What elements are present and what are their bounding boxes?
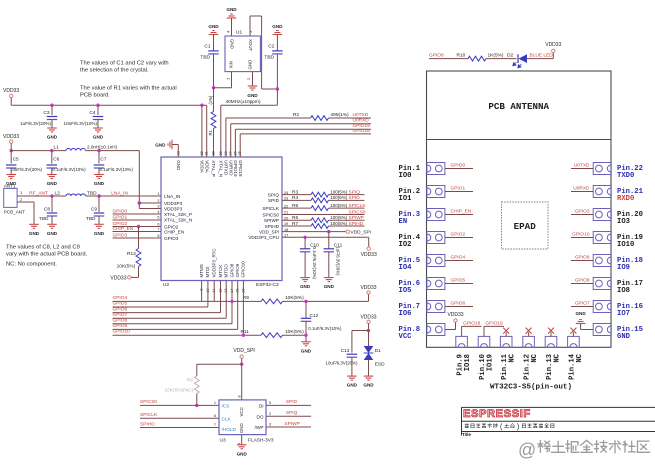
antenna zone divider (427, 139, 612, 141)
wire GPIO9 row (113, 328, 238, 330)
svg-text:IO7: IO7 (617, 310, 630, 318)
wire SPIHD to flash (140, 427, 219, 429)
svg-text:IO8: IO8 (617, 287, 630, 295)
svg-text:R11: R11 (240, 329, 249, 335)
svg-text:XTAL_32K_N: XTAL_32K_N (164, 217, 192, 222)
junction D1 node (367, 329, 370, 332)
svg-text:PCB board.: PCB board. (80, 93, 110, 99)
capacitor C10 (304, 237, 306, 249)
wire U1 pin3 XOUT routing (249, 16, 251, 36)
svg-text:XOUT: XOUT (248, 39, 253, 52)
company name Chinese (465, 424, 469, 428)
svg-text:PCB ANTENNA: PCB ANTENNA (488, 101, 549, 112)
svg-text:R13: R13 (127, 251, 136, 257)
svg-text:100(5%): 100(5%) (330, 221, 348, 226)
svg-text:TBD: TBD (86, 216, 96, 222)
svg-text:GPIO2: GPIO2 (451, 231, 466, 237)
power port VDD33 module VCC (445, 329, 456, 331)
svg-text:GND: GND (247, 93, 258, 98)
svg-text:U0RXD: U0RXD (353, 118, 370, 124)
svg-text:GPIO9: GPIO9 (113, 323, 128, 329)
svg-text:GPIO4: GPIO4 (113, 295, 128, 301)
svg-text:C6: C6 (53, 157, 59, 163)
wire GPIO4 row joining R9 line (113, 300, 262, 302)
svg-text:VDD33: VDD33 (3, 88, 19, 94)
svg-text:C4: C4 (89, 110, 95, 116)
svg-text:2.0nH(±0.1nH): 2.0nH(±0.1nH) (87, 144, 118, 149)
svg-text:GPIO1: GPIO1 (451, 185, 466, 191)
svg-text:GND: GND (176, 160, 181, 171)
svg-text:Title: Title (462, 432, 472, 437)
svg-text:GPIO0: GPIO0 (113, 208, 128, 214)
svg-text:GND: GND (226, 7, 237, 12)
NC mark (550, 332, 552, 336)
svg-text:VDD_SPI: VDD_SPI (259, 229, 279, 234)
wire XIN node to U1 pin1 (214, 87, 232, 89)
module pad Pin.3 EN (427, 209, 445, 221)
wire DO (266, 415, 311, 417)
svg-text:GND: GND (93, 135, 104, 140)
svg-text:C13: C13 (341, 348, 350, 354)
junction R13 on GPIO2 (137, 225, 140, 228)
junction C11 (327, 230, 330, 233)
svg-text:VDDA: VDDA (204, 160, 209, 173)
svg-text:10nF/6.3V(10%): 10nF/6.3V(10%) (64, 121, 98, 126)
svg-text:D1: D1 (375, 348, 381, 354)
svg-text:R3: R3 (292, 189, 298, 195)
svg-text:3: 3 (269, 423, 271, 427)
wire to U2 pin3 (138, 203, 140, 209)
svg-text:C7: C7 (100, 157, 106, 163)
wire VDD33 down to D1 node (368, 324, 370, 331)
svg-text:100(5%): 100(5%) (330, 195, 348, 200)
svg-text:1: 1 (20, 190, 23, 195)
svg-text:1: 1 (226, 77, 231, 80)
svg-text:SPIWP: SPIWP (349, 215, 364, 221)
svg-text:GND: GND (363, 383, 374, 388)
svg-text:31: 31 (205, 151, 209, 155)
svg-text:LNA_IN: LNA_IN (164, 194, 180, 199)
module pad Pin.8 VCC (427, 324, 445, 336)
wire GPIO8 to R10 (429, 58, 468, 60)
wire to pullup R8 (197, 363, 242, 365)
svg-text:VDD3P3: VDD3P3 (164, 206, 183, 211)
junction C12 (304, 300, 307, 303)
svg-text:IO10: IO10 (617, 241, 634, 249)
module pad Pin.19 IO10 (593, 232, 611, 244)
IC U2 ESP32-C3 (161, 157, 282, 281)
svg-text:TBD: TBD (39, 216, 49, 222)
wire SPICLK row (282, 207, 311, 209)
svg-text:GND: GND (272, 24, 283, 29)
svg-text:VDD3P3: VDD3P3 (164, 201, 183, 206)
svg-text:5: 5 (157, 216, 159, 220)
svg-text:vary with the actual PCB board: vary with the actual PCB board. (6, 252, 88, 258)
IC U3 FLASH-3V3 (219, 400, 266, 435)
ground module pin15 (581, 329, 594, 331)
wire VDD33 rail1 (10, 98, 12, 106)
svg-text:ANT1: ANT1 (4, 183, 16, 188)
svg-text:0.1uF/6.3V(10%): 0.1uF/6.3V(10%) (312, 247, 317, 280)
svg-text:SPICLK: SPICLK (349, 203, 367, 209)
junction C3 (50, 104, 53, 107)
svg-text:IO18: IO18 (464, 354, 472, 371)
svg-text:SPIQ: SPIQ (268, 192, 280, 197)
svg-text:30: 30 (212, 151, 216, 155)
svg-text:SPIWP: SPIWP (264, 218, 279, 223)
svg-text:0.1uF/6.3V(10%): 0.1uF/6.3V(10%) (308, 326, 342, 331)
svg-text:U0RXD: U0RXD (573, 185, 590, 191)
svg-text:GPIO9: GPIO9 (235, 263, 240, 277)
ground C12 (301, 341, 311, 343)
junction R8 on SPICS0 (195, 404, 198, 407)
wire ANT1 pin2 to ground (17, 201, 34, 203)
node XIN junction (212, 86, 215, 89)
ground C7 (94, 174, 104, 176)
module pad Pin.5 IO4 (427, 255, 445, 267)
svg-text:GPIO4: GPIO4 (451, 254, 466, 260)
svg-text:MTDI: MTDI (205, 267, 210, 278)
svg-text:GPIO6: GPIO6 (451, 300, 466, 306)
wire SPID row (282, 199, 311, 201)
svg-text:GND: GND (47, 135, 58, 140)
svg-text:CHIP_EN: CHIP_EN (113, 226, 134, 232)
svg-text:U3: U3 (220, 438, 226, 444)
svg-text:ESPRESSIF: ESPRESSIF (463, 408, 531, 420)
svg-text:IO19: IO19 (486, 354, 494, 371)
svg-text:GND: GND (94, 231, 105, 236)
wire VDD3P3 feed down (138, 151, 140, 203)
svg-text:MTMS: MTMS (199, 264, 204, 277)
wire SPIQ row (282, 194, 311, 196)
svg-text:GPIO5: GPIO5 (113, 301, 128, 307)
svg-text:GPIO10: GPIO10 (572, 231, 590, 237)
wire GPIO18 to pad (461, 326, 463, 336)
svg-text:2: 2 (157, 199, 159, 203)
junction GPIO10 stub (242, 334, 245, 337)
wire SPICS0 to flash (140, 404, 219, 406)
svg-text:C3: C3 (43, 110, 49, 116)
ground C6 (47, 174, 57, 176)
svg-text:6: 6 (157, 223, 159, 227)
svg-text:DO: DO (256, 414, 263, 419)
svg-text:R6: R6 (292, 215, 298, 221)
svg-text:VDD33: VDD33 (361, 252, 377, 258)
wire GPIO19 to pad (483, 326, 485, 336)
svg-text:GPIO6: GPIO6 (113, 306, 128, 312)
wire VDD3P3_CPU row pin17 (282, 236, 369, 238)
svg-text:GND: GND (247, 60, 252, 70)
node XOUT junction (276, 87, 279, 90)
svg-text:MTDO: MTDO (224, 264, 229, 278)
svg-text:GPIO3: GPIO3 (113, 232, 128, 238)
svg-text:29: 29 (219, 151, 223, 155)
capacitor C7 (98, 151, 100, 164)
svg-text:GND: GND (155, 143, 166, 148)
module pad Pin.22 TXD0 (593, 163, 611, 175)
svg-text:GND: GND (47, 181, 58, 186)
svg-text:GPIO8: GPIO8 (575, 277, 590, 283)
svg-text:10K(5%): 10K(5%) (285, 329, 304, 335)
wire L2 to LNA_IN (86, 195, 161, 197)
svg-text:10K(5%): 10K(5%) (117, 264, 136, 270)
svg-text:GND: GND (347, 383, 358, 388)
svg-text:GPIO10: GPIO10 (241, 261, 246, 278)
svg-text:EN: EN (399, 218, 408, 226)
svg-text:IO6: IO6 (399, 310, 412, 318)
svg-text:IO9: IO9 (617, 264, 630, 272)
NC mark (572, 332, 574, 336)
svg-text:U0TXD: U0TXD (574, 162, 590, 168)
svg-text:VDD3P3_CPU: VDD3P3_CPU (248, 235, 279, 240)
NC mark (505, 332, 507, 336)
svg-text:GND: GND (208, 24, 219, 29)
junction C9 (97, 194, 100, 197)
svg-text:8: 8 (157, 234, 159, 238)
svg-text:IO4: IO4 (399, 264, 413, 272)
svg-text:the selection of the crystal.: the selection of the crystal. (80, 68, 149, 74)
wire GPIO2 to U2 (113, 226, 162, 228)
svg-text:10K(5%): 10K(5%) (285, 295, 304, 301)
svg-text:TBD: TBD (87, 190, 97, 196)
svg-text:VDD_SPI: VDD_SPI (351, 230, 372, 236)
svg-text:1uF/6.3V(20%): 1uF/6.3V(20%) (20, 121, 51, 126)
ground C8 (47, 223, 57, 225)
svg-text:(1%): (1%) (208, 95, 213, 104)
svg-text:GND: GND (617, 333, 631, 341)
svg-text:R4: R4 (292, 195, 298, 201)
svg-text:IO1: IO1 (399, 195, 413, 203)
svg-text:GPIO18: GPIO18 (353, 128, 371, 134)
svg-text:VDD_SPI: VDD_SPI (233, 348, 254, 354)
ground C4 (93, 127, 103, 129)
module pad Pin.21 RXD0 (593, 186, 611, 198)
svg-text:C9: C9 (91, 207, 97, 213)
svg-text:100(5%): 100(5%) (330, 203, 348, 208)
svg-text:IO5: IO5 (399, 287, 412, 295)
wire C1 to XIN node (213, 54, 215, 88)
svg-text:VDD33: VDD33 (545, 42, 561, 48)
wire D2 to VDD33 (527, 58, 553, 60)
ground C10 (300, 277, 310, 279)
svg-text:U2: U2 (163, 282, 169, 288)
wire WP (266, 426, 311, 428)
svg-text:GND: GND (237, 451, 248, 456)
capacitor C4 (97, 105, 99, 115)
ground for U1 pin2 (252, 72, 254, 86)
svg-text:GND: GND (29, 231, 40, 236)
svg-text:GPIO0: GPIO0 (451, 162, 466, 168)
wire GPIO5 row (113, 306, 208, 308)
module pad Pin.10 IO19 (478, 336, 490, 347)
wire SPICS0 row (282, 214, 365, 216)
wire U2 pin33 GND (177, 145, 179, 158)
title block frame (462, 406, 655, 408)
svg-text:D2: D2 (507, 52, 513, 58)
wire rail2 left segment (11, 150, 66, 152)
module pad Pin.12 NC (523, 336, 535, 347)
wire C2 to XOUT node (276, 54, 278, 89)
svg-text:SPICS0: SPICS0 (140, 399, 157, 405)
svg-text:5: 5 (269, 401, 271, 405)
svg-text:RF_ANT: RF_ANT (29, 190, 48, 196)
module pad Pin.4 IO2 (427, 232, 445, 244)
junction C8 (50, 194, 53, 197)
module pad Pin.7 IO6 (427, 301, 445, 313)
wire LNA_IN row into pin1 (99, 195, 161, 197)
ground C13 (347, 375, 357, 377)
module pad Pin.16 IO7 (593, 301, 611, 313)
svg-text:4: 4 (226, 30, 231, 33)
svg-text:R10: R10 (457, 52, 466, 58)
svg-text:4: 4 (157, 210, 159, 214)
svg-text:GPIO10: GPIO10 (113, 329, 131, 335)
svg-text:10uF/6.3V(20%): 10uF/6.3V(20%) (326, 360, 359, 365)
svg-text:PCB_ANT: PCB_ANT (4, 209, 25, 214)
svg-text:GPIO8: GPIO8 (229, 263, 234, 277)
power port VDD_SPI (346, 230, 349, 233)
junction R9 tap on GPIO8 stub (230, 300, 233, 303)
svg-text:U0TXD: U0TXD (353, 112, 369, 118)
svg-text:6: 6 (214, 414, 216, 418)
capacitor C6 (51, 151, 53, 164)
capacitor C3 (51, 105, 53, 115)
wire GPIO18 row (239, 134, 241, 157)
module pad Pin.17 IO8 (593, 278, 611, 290)
module pad Pin.15 GND (593, 324, 611, 336)
module outline WT32C3-S5 (427, 71, 612, 347)
wire U0TXD row with R2 (225, 118, 227, 157)
svg-text:GPIO18: GPIO18 (463, 321, 481, 327)
power port VDD33 right of U2 (367, 247, 370, 250)
svg-text:NC: NC (576, 353, 584, 362)
svg-text:2: 2 (20, 197, 23, 202)
svg-text:/WP: /WP (255, 425, 264, 430)
svg-text:SPID: SPID (286, 399, 298, 405)
svg-text:EPAD: EPAD (514, 221, 537, 232)
wire U1 pin4 to GND (231, 18, 233, 36)
svg-text:7: 7 (214, 423, 216, 427)
svg-text:C1: C1 (204, 44, 210, 50)
svg-text:CHIP_EN: CHIP_EN (451, 208, 472, 214)
svg-text:VDD3P3_RTC: VDD3P3_RTC (212, 248, 217, 278)
wire VDDA pins from rail (200, 104, 203, 107)
svg-text:C5: C5 (13, 157, 19, 163)
svg-text:R7: R7 (292, 221, 298, 227)
svg-text:R1: R1 (208, 129, 213, 135)
wire VDD_SPI row pin18 (282, 231, 346, 233)
svg-text:VDD33: VDD33 (110, 275, 126, 281)
junction VDD3P3 (138, 201, 141, 204)
svg-text:VDD33: VDD33 (447, 312, 463, 318)
svg-text:TXD0: TXD0 (617, 172, 634, 180)
TVS diode D1 (368, 331, 370, 347)
ground C9 (94, 223, 104, 225)
svg-text:SPID: SPID (268, 198, 280, 203)
svg-text:GPIO7: GPIO7 (575, 300, 590, 306)
svg-text:VDD33: VDD33 (3, 134, 19, 140)
svg-text:R2: R2 (293, 112, 299, 118)
svg-text:2: 2 (269, 412, 271, 416)
svg-text:VDD33: VDD33 (360, 314, 376, 320)
svg-text:The values of C1 and C2 vary w: The values of C1 and C2 vary with (80, 61, 169, 67)
svg-text:The value of R1 varies with th: The value of R1 varies with the actual (80, 86, 177, 92)
svg-text:GPIO18: GPIO18 (238, 160, 243, 177)
svg-text:1: 1 (214, 401, 216, 405)
svg-text:DI: DI (259, 403, 264, 408)
svg-text:U1: U1 (236, 30, 242, 36)
wire U0RXD row (230, 124, 232, 157)
svg-text:L2: L2 (55, 190, 61, 196)
svg-text:R5: R5 (292, 203, 298, 209)
svg-text:C2: C2 (268, 44, 274, 50)
svg-text:3: 3 (248, 30, 253, 33)
svg-text:C8: C8 (44, 207, 50, 213)
wire GPIO19 row (234, 129, 236, 157)
module pad Pin.6 IO5 (427, 278, 445, 290)
junction C4 (96, 104, 99, 107)
svg-text:0.1uF/6.3V(10%): 0.1uF/6.3V(10%) (100, 167, 134, 172)
svg-text:2: 2 (246, 77, 251, 80)
EPAD box (502, 202, 549, 249)
svg-text:10K(5%)(NC): 10K(5%)(NC) (165, 387, 194, 393)
capacitor C5 (10, 151, 12, 164)
svg-text:NC: NC (553, 353, 561, 362)
svg-text:IO3: IO3 (617, 218, 630, 226)
ground U3 (237, 444, 247, 446)
svg-text:The values of C8, L2 and C9: The values of C8, L2 and C9 (6, 244, 80, 250)
svg-text:40MHz(±10ppm): 40MHz(±10ppm) (226, 99, 261, 104)
svg-text:GPIO7: GPIO7 (113, 312, 128, 318)
svg-text:GPIO19: GPIO19 (233, 160, 238, 177)
wire R10 to D2 (486, 58, 517, 60)
svg-text:XTAL_N: XTAL_N (219, 160, 224, 177)
svg-text:GPIO8: GPIO8 (113, 318, 128, 324)
svg-text:1uF/6.3V(20%): 1uF/6.3V(20%) (336, 247, 341, 276)
svg-text:/CS: /CS (222, 403, 230, 408)
wire VDD3P3_RTC stub to VDD line (213, 281, 215, 302)
svg-text:@: @ (518, 440, 536, 460)
capacitor C12 (305, 301, 307, 318)
capacitor C9 (98, 196, 100, 212)
svg-text:IO2: IO2 (399, 241, 412, 249)
svg-text:SPIQ: SPIQ (286, 410, 298, 416)
wire XTAL_N net from crystal to U2 pin29 (276, 89, 278, 105)
svg-text:1K(5%): 1K(5%) (488, 52, 504, 58)
wire to C13 (352, 330, 369, 332)
svg-text:10uF/6.3V(20%): 10uF/6.3V(20%) (10, 167, 43, 172)
svg-text:GND: GND (47, 231, 58, 236)
svg-text:SPICLK: SPICLK (262, 206, 280, 211)
wire RF_ANT (17, 195, 66, 197)
wire flash GND (241, 435, 243, 445)
svg-text:NC: No component.: NC: No component. (6, 262, 57, 268)
svg-text:7: 7 (157, 228, 159, 232)
module pad Pin.20 IO3 (593, 209, 611, 221)
wire rail2 right segment (86, 150, 140, 152)
junction C6 (50, 149, 53, 152)
power port VDD33 LED (552, 49, 555, 52)
junction VDD_SPI (240, 363, 243, 366)
svg-text:SPIWP: SPIWP (284, 421, 299, 427)
wire GPIO0 to U2 (113, 213, 162, 215)
svg-text:GPIO3: GPIO3 (164, 236, 179, 241)
svg-text:CLK: CLK (222, 416, 232, 421)
svg-text:VDDA: VDDA (200, 160, 205, 173)
svg-text:VCC: VCC (239, 406, 244, 416)
wire SPIHD row (282, 225, 311, 227)
svg-text:SPICS0: SPICS0 (262, 212, 279, 217)
